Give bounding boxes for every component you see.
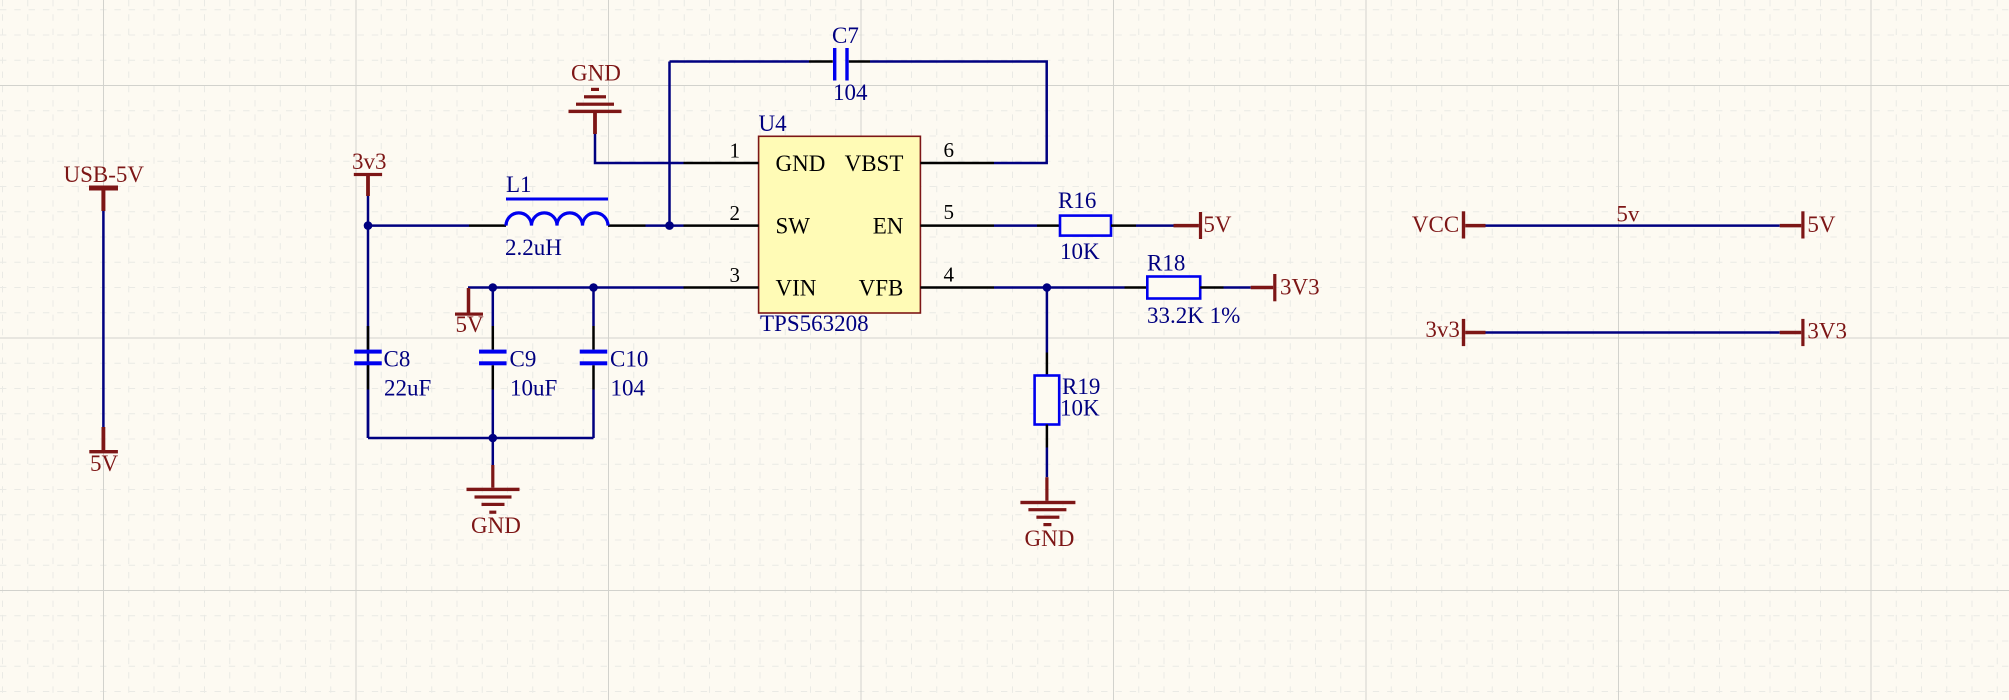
svg-text:3v3: 3v3 — [352, 149, 387, 174]
net label 5v — [1616, 202, 1640, 227]
svg-text:5v: 5v — [1616, 202, 1640, 227]
svg-text:L1: L1 — [506, 172, 532, 197]
power port 5V (VIN) — [455, 288, 484, 337]
svg-text:6: 6 — [944, 138, 955, 162]
node C9/GND junction — [489, 434, 498, 443]
svg-text:VFB: VFB — [859, 275, 904, 300]
node SW/C7 junction — [665, 221, 674, 230]
resistor R16 10K — [1037, 188, 1136, 264]
power port 5V (bottom left) — [89, 427, 118, 476]
node VFB/R19 junction — [1043, 283, 1052, 292]
capacitor C7 104 — [809, 23, 870, 105]
svg-text:R16: R16 — [1058, 188, 1096, 213]
power port 5V (right) — [1780, 211, 1836, 238]
svg-text:3: 3 — [730, 263, 741, 287]
svg-text:10K: 10K — [1060, 239, 1100, 264]
svg-text:USB-5V: USB-5V — [64, 162, 145, 187]
wire L1 to pin2 SW — [646, 224, 684, 227]
svg-text:2.2uH: 2.2uH — [505, 235, 562, 260]
ground GND (C9 bottom) — [467, 438, 521, 538]
svg-text:3V3: 3V3 — [1280, 275, 1320, 300]
wire bottom rail — [368, 437, 594, 440]
svg-text:VBST: VBST — [845, 151, 904, 176]
svg-text:1: 1 — [730, 139, 741, 163]
power port USB-5V — [64, 162, 145, 211]
svg-text:22uF: 22uF — [384, 376, 431, 401]
svg-text:2: 2 — [730, 201, 741, 225]
svg-text:104: 104 — [833, 80, 868, 105]
svg-text:R18: R18 — [1147, 251, 1185, 276]
svg-text:EN: EN — [873, 214, 904, 239]
capacitor C10 104 — [580, 288, 649, 439]
svg-text:3V3: 3V3 — [1807, 319, 1847, 344]
svg-text:TPS563208: TPS563208 — [760, 311, 869, 336]
power port VCC — [1412, 211, 1486, 238]
node 3v3/SW junction — [364, 221, 373, 230]
power port 3V3 (VFB) — [1251, 274, 1320, 301]
wire VFB to node B — [994, 286, 1125, 289]
svg-text:104: 104 — [611, 376, 646, 401]
wire C7 left segment — [670, 60, 810, 63]
svg-text:C8: C8 — [384, 347, 411, 372]
wire 3v3 vertical to C8 and bottom rail — [367, 196, 370, 438]
power port 3v3 (input) — [352, 149, 387, 196]
svg-text:GND: GND — [571, 61, 621, 86]
resistor R18 33.2K — [1125, 251, 1241, 329]
wire node B down to R19 — [1046, 288, 1049, 353]
wire USB-5V rail — [102, 211, 105, 427]
svg-text:3v3: 3v3 — [1425, 317, 1460, 342]
node VIN/C10 junction — [589, 283, 598, 292]
svg-text:5V: 5V — [1807, 212, 1836, 237]
svg-text:4: 4 — [944, 263, 955, 287]
wire net 5v — [1486, 224, 1780, 227]
capacitor C8 22uF — [354, 326, 431, 438]
svg-text:C10: C10 — [610, 347, 648, 372]
svg-text:5V: 5V — [90, 451, 119, 476]
wire SW node up to C7 (left vertical) — [668, 62, 671, 226]
svg-text:GND: GND — [1025, 526, 1075, 551]
power port 5V (EN) — [1174, 212, 1232, 239]
power port 3v3 (right) — [1425, 317, 1485, 346]
ground GND (R19) — [1020, 477, 1075, 551]
power port 3V3 (right) — [1780, 319, 1847, 347]
svg-text:VIN: VIN — [776, 275, 817, 300]
svg-text:5V: 5V — [1203, 212, 1232, 237]
wire R18 to 3V3 port — [1224, 286, 1251, 289]
svg-text:33.2K 1%: 33.2K 1% — [1147, 303, 1240, 328]
svg-text:U4: U4 — [759, 111, 788, 136]
inductor L1 2.2uH — [469, 172, 646, 260]
svg-text:10K: 10K — [1060, 396, 1100, 421]
svg-text:C9: C9 — [510, 347, 537, 372]
wire R19 to GND — [1046, 448, 1049, 478]
svg-text:GND: GND — [471, 513, 521, 538]
wire GND to pin1 — [595, 134, 684, 163]
op-amp U4 TPS563208 — [684, 111, 995, 336]
wire C7 right segment to VBST — [870, 62, 1047, 164]
ground GND (top, pin1) — [569, 61, 622, 135]
svg-text:SW: SW — [776, 214, 811, 239]
capacitor C9 10uF — [479, 288, 557, 439]
resistor R19 10K — [1035, 353, 1101, 448]
wire R16 to 5V port — [1136, 224, 1174, 227]
svg-text:C7: C7 — [832, 23, 859, 48]
wire net 3v3 — [1486, 331, 1780, 334]
wire VIN row — [468, 286, 684, 289]
node VIN/C9 junction — [489, 283, 498, 292]
svg-text:10uF: 10uF — [510, 376, 557, 401]
svg-text:5V: 5V — [456, 312, 485, 337]
svg-text:VCC: VCC — [1412, 212, 1459, 237]
svg-text:GND: GND — [776, 151, 826, 176]
wire node A to L1 (SW row) — [368, 224, 469, 227]
svg-text:5: 5 — [944, 200, 955, 224]
wire EN to R16 — [994, 224, 1037, 227]
